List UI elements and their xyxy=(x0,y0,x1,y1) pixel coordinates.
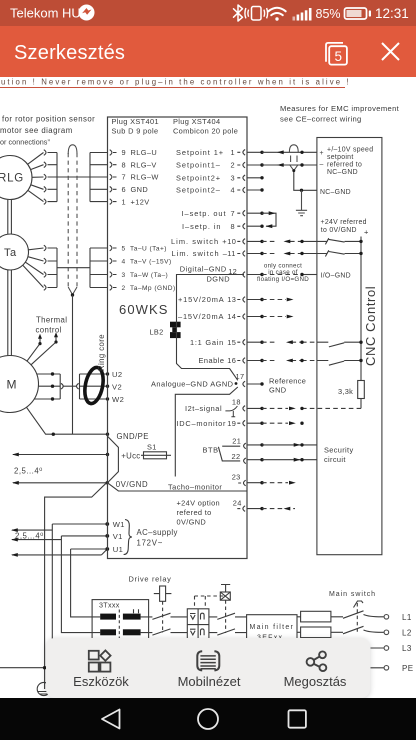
svg-text:IDC–monitor: IDC–monitor xyxy=(177,419,227,428)
svg-text:12:31: 12:31 xyxy=(375,6,409,21)
svg-text:Setpoint1–: Setpoint1– xyxy=(176,161,221,170)
I2t pin squiggle xyxy=(225,406,237,417)
svg-text:setpoint: setpoint xyxy=(327,154,354,161)
svg-text:1: 1 xyxy=(231,148,235,157)
svg-text:Combicon 20 pole: Combicon 20 pole xyxy=(173,127,238,136)
RLG fan wires xyxy=(28,153,44,202)
svg-text:4: 4 xyxy=(122,259,126,266)
svg-text:0V/GND: 0V/GND xyxy=(177,517,207,526)
controller box outline xyxy=(108,117,248,559)
svg-text:13: 13 xyxy=(227,295,236,304)
resistor 3,3k xyxy=(358,381,365,399)
twisted pair shield capsule xyxy=(289,145,298,171)
svg-text:Main switch: Main switch xyxy=(329,591,376,598)
motor wire dots at box edge xyxy=(106,372,109,400)
svg-text:Drive relay: Drive relay xyxy=(129,575,172,584)
AGND banner lower edge and monitor box xyxy=(175,387,238,477)
bottom tool overlay xyxy=(46,638,370,698)
Ta cable through wire xyxy=(57,267,90,269)
gain and enable dashed wires xyxy=(262,342,317,360)
svg-text:CNC Control: CNC Control xyxy=(363,286,378,366)
svg-text:motor see diagram: motor see diagram xyxy=(0,126,73,135)
svg-text:Tacho–monitor: Tacho–monitor xyxy=(168,482,222,491)
EMC note xyxy=(280,104,400,124)
terminal circles L1 L2 L3 PE xyxy=(384,615,389,671)
limit switch wires xyxy=(262,241,317,253)
Ta left comb xyxy=(48,248,58,288)
AC supply brace xyxy=(124,520,132,555)
svg-text:+24V referred: +24V referred xyxy=(321,219,367,226)
I/O-GND wire xyxy=(262,274,302,276)
svg-text:or connections”: or connections” xyxy=(0,138,50,147)
RLG cable through wire xyxy=(48,176,108,178)
svg-text:Plug XST401: Plug XST401 xyxy=(112,117,159,126)
svg-text:U2: U2 xyxy=(112,370,123,379)
svg-text:Lim. switch –: Lim. switch – xyxy=(172,249,228,258)
cable shield screen dashed capsule xyxy=(68,145,77,295)
svg-text:BTB: BTB xyxy=(203,446,219,455)
svg-text:5: 5 xyxy=(334,49,342,64)
svg-text:Measures for EMC improvement: Measures for EMC improvement xyxy=(280,104,400,113)
svg-text:AC–supply: AC–supply xyxy=(137,528,178,537)
PE branch wire left xyxy=(0,667,45,669)
cable break arcs xyxy=(61,383,79,389)
cable mid wire xyxy=(63,374,108,399)
svg-text:4: 4 xyxy=(231,186,235,195)
svg-text:0V/GND: 0V/GND xyxy=(116,480,148,489)
signal ground symbol xyxy=(296,190,307,215)
15V supply dashed arrows xyxy=(262,300,286,317)
svg-text:ution ! Never remove or plug–i: ution ! Never remove or plug–in the cont… xyxy=(1,78,351,87)
shield drain to NC-GND xyxy=(294,170,317,190)
svg-text:Ring core: Ring core xyxy=(97,334,106,371)
left pin labels xyxy=(122,148,159,206)
svg-text:85%: 85% xyxy=(316,7,341,21)
svg-text:7: 7 xyxy=(231,209,235,218)
Ta right comb xyxy=(90,248,108,288)
svg-text:8: 8 xyxy=(122,160,127,169)
svg-text:Ta: Ta xyxy=(4,247,17,259)
line fuses L1 L2 xyxy=(297,611,343,637)
svg-text:Telekom HU: Telekom HU xyxy=(10,6,81,21)
svg-text:5: 5 xyxy=(122,246,126,253)
svg-text:control: control xyxy=(36,325,62,334)
svg-text:Reference: Reference xyxy=(269,377,306,386)
RLG left comb xyxy=(48,153,58,202)
svg-text:17: 17 xyxy=(236,372,245,381)
svg-text:Plug XST404: Plug XST404 xyxy=(173,117,220,126)
svg-text:+12V: +12V xyxy=(131,197,150,206)
left pin symbols xyxy=(110,150,117,291)
svg-text:Main filter: Main filter xyxy=(250,624,295,631)
power stage bottom divider xyxy=(108,483,247,491)
svg-text:23: 23 xyxy=(232,473,241,482)
svg-text:RLG–U: RLG–U xyxy=(131,148,158,157)
svg-text:L2: L2 xyxy=(402,629,412,638)
contactor coil K xyxy=(220,585,230,601)
+24V referred label xyxy=(321,219,367,234)
BTB wires to security circuit xyxy=(262,445,317,460)
tacho monitor dashed wire xyxy=(262,482,288,484)
svg-text:Enable: Enable xyxy=(199,356,225,365)
Ta fan wires xyxy=(23,248,44,288)
svg-text:refered to: refered to xyxy=(177,508,212,517)
AC supply wires into drive xyxy=(52,524,107,645)
svg-text:S1: S1 xyxy=(147,443,157,452)
PE earth circle xyxy=(37,682,50,695)
svg-text:–: – xyxy=(320,162,324,169)
rotor sensor note xyxy=(0,115,95,147)
terminal labels xyxy=(402,613,413,673)
resistor lower lead xyxy=(360,399,362,409)
svg-text:DGND: DGND xyxy=(207,275,231,284)
svg-text:Ta–W (Ta–): Ta–W (Ta–) xyxy=(130,272,168,279)
DGND sub box xyxy=(177,275,245,381)
warning note text xyxy=(1,78,351,87)
svg-text:10: 10 xyxy=(227,237,236,246)
thermal control label xyxy=(36,316,68,335)
svg-text:3: 3 xyxy=(122,272,126,279)
svg-text:12: 12 xyxy=(228,267,237,276)
svg-text:14: 14 xyxy=(227,312,236,321)
mains arrows W1 V1 U1 xyxy=(12,530,107,555)
close X xyxy=(382,43,399,60)
limit switch contacts in CNC xyxy=(317,237,361,381)
right pin C symbols xyxy=(237,150,246,512)
svg-text:+24V option: +24V option xyxy=(177,498,221,507)
svg-text:I/O–GND: I/O–GND xyxy=(321,273,351,280)
svg-text:1:1 Gain: 1:1 Gain xyxy=(190,338,224,347)
motor M circle xyxy=(0,356,39,413)
svg-text:to 0V/GND: to 0V/GND xyxy=(321,227,357,234)
svg-text:3,3k: 3,3k xyxy=(338,387,353,396)
svg-text:3Txxx: 3Txxx xyxy=(99,601,120,610)
vibrate icon xyxy=(252,7,262,21)
svg-text:RLG–V: RLG–V xyxy=(131,160,157,169)
svg-text:Sub D 9 pole: Sub D 9 pole xyxy=(112,127,159,136)
gain and enable contacts in CNC xyxy=(317,342,361,365)
ring core ferrite xyxy=(82,366,106,405)
svg-text:W2: W2 xyxy=(112,395,124,404)
svg-text:RLG–W: RLG–W xyxy=(131,173,159,182)
right pin labels xyxy=(176,148,224,195)
wires pins to junction dots xyxy=(247,152,262,508)
svg-text:Ta–Mp (GND): Ta–Mp (GND) xyxy=(130,285,176,292)
svg-text:NC–GND: NC–GND xyxy=(320,189,351,196)
svg-text:LB2: LB2 xyxy=(150,328,164,337)
RLG right comb xyxy=(90,153,108,202)
I2t signal dashed wire xyxy=(262,407,361,409)
svg-text:V1: V1 xyxy=(113,532,123,541)
svg-text:8: 8 xyxy=(231,222,235,231)
svg-text:6: 6 xyxy=(122,185,127,194)
svg-text:7: 7 xyxy=(122,173,127,182)
tools icon xyxy=(89,651,99,660)
battery icon xyxy=(345,8,367,19)
tacho Ta circle xyxy=(0,234,29,270)
svg-text:Thermal: Thermal xyxy=(36,316,67,325)
svg-text:+/–10V speed: +/–10V speed xyxy=(327,147,373,154)
svg-text:18: 18 xyxy=(232,398,241,407)
svg-text:I–setp. in: I–setp. in xyxy=(182,222,222,231)
app toolbar xyxy=(0,26,416,77)
Ta connector arcs xyxy=(44,245,46,290)
svg-text:referred to: referred to xyxy=(327,162,362,169)
svg-text:172V~: 172V~ xyxy=(137,539,164,548)
copy/pages icon with 5 xyxy=(326,43,343,62)
bluetooth icon xyxy=(234,5,243,21)
svg-text:circuit: circuit xyxy=(324,455,346,464)
svg-text:W1: W1 xyxy=(113,520,125,529)
svg-text:2,5...4⁰: 2,5...4⁰ xyxy=(15,532,44,541)
svg-text:60WKS: 60WKS xyxy=(119,302,169,317)
transformer 3Txxx box xyxy=(92,600,149,645)
junction dots at x262 xyxy=(260,151,263,511)
svg-text:L3: L3 xyxy=(402,644,412,653)
svg-text:Setpoint2–: Setpoint2– xyxy=(176,186,221,195)
svg-text:24: 24 xyxy=(233,498,242,507)
svg-text:RLG: RLG xyxy=(0,173,24,185)
svg-text:+: + xyxy=(320,150,324,157)
main filter box xyxy=(247,615,297,649)
overvoltage fuse module xyxy=(187,609,209,641)
svg-text:in case of: in case of xyxy=(268,269,297,276)
svg-text:19: 19 xyxy=(227,419,236,428)
svg-text:PE: PE xyxy=(402,664,413,673)
floating note xyxy=(257,263,309,284)
navigation bar xyxy=(0,698,416,740)
motor phase wires U2 V2 W2 xyxy=(34,374,60,399)
svg-text:22: 22 xyxy=(232,452,241,461)
svg-text:+: + xyxy=(364,228,369,237)
transformer windings row 2 xyxy=(100,629,140,635)
svg-text:9: 9 xyxy=(122,148,127,157)
svg-text:GND/PE: GND/PE xyxy=(117,432,149,441)
messenger icon xyxy=(79,5,95,21)
BTB pin link xyxy=(218,446,240,461)
svg-text:GND: GND xyxy=(269,386,286,395)
transformer core dashes xyxy=(118,610,120,641)
motor terminal labels U2 V2 W2 xyxy=(112,370,124,404)
wires to main filter xyxy=(209,613,247,635)
plug header labels xyxy=(112,117,239,136)
svg-text:1: 1 xyxy=(122,197,127,206)
wifi icon xyxy=(268,8,285,15)
svg-text:Ta–U (Ta+): Ta–U (Ta+) xyxy=(130,246,167,253)
svg-text:–15V/20mA: –15V/20mA xyxy=(178,312,224,321)
mobile view icon xyxy=(197,651,219,670)
+Ucc external wire arrow xyxy=(13,454,108,456)
resolver RLG circle xyxy=(0,156,32,200)
cable pair Ta to M xyxy=(8,270,12,356)
share icon xyxy=(307,658,315,666)
shield drain wire to GND/PE xyxy=(71,293,74,296)
svg-text:floating I/O=GND: floating I/O=GND xyxy=(257,276,309,283)
svg-text:for rotor position sensor: for rotor position sensor xyxy=(2,115,95,124)
svg-text:2: 2 xyxy=(231,161,235,170)
power stage notch outline xyxy=(108,436,119,483)
svg-text:GND: GND xyxy=(131,185,149,194)
drive relay coil xyxy=(154,586,172,601)
svg-text:NC–GND: NC–GND xyxy=(327,169,358,176)
transformer tap ticks xyxy=(134,609,139,613)
mains wires row 1 xyxy=(141,613,188,635)
main switch contacts xyxy=(343,611,384,668)
cable pair RLG to Ta xyxy=(8,200,12,235)
svg-text:Setpoint2+: Setpoint2+ xyxy=(176,174,221,183)
svg-text:16: 16 xyxy=(227,356,236,365)
GND/PE wire from motor xyxy=(27,407,108,434)
svg-text:3: 3 xyxy=(231,174,235,183)
24V option dashed wire xyxy=(262,508,295,510)
svg-text:U1: U1 xyxy=(113,545,123,554)
I-setp loopback 7 to 8 xyxy=(262,213,276,226)
reference GND label xyxy=(269,377,306,395)
IDC monitor dashed wire xyxy=(262,422,288,424)
transformer windings row 1 xyxy=(100,614,140,620)
CNC box outline xyxy=(317,138,382,555)
0V/GND wire down to PE xyxy=(45,483,107,689)
svg-text:Lim. switch +: Lim. switch + xyxy=(171,237,228,246)
AC supply label xyxy=(137,528,178,548)
setpoint wires with arrows to CNC xyxy=(262,152,317,165)
svg-text:V2: V2 xyxy=(112,383,122,392)
svg-text:Setpoint 1+: Setpoint 1+ xyxy=(176,148,224,157)
svg-text:15: 15 xyxy=(227,338,236,347)
svg-text:Digital–GND: Digital–GND xyxy=(180,265,227,274)
svg-text:2,5...4⁰: 2,5...4⁰ xyxy=(14,467,43,476)
contactor dashed links xyxy=(195,596,226,633)
RLG connector arcs xyxy=(44,150,46,205)
svg-text:2: 2 xyxy=(122,285,126,292)
svg-text:+Ucc: +Ucc xyxy=(121,452,140,461)
svg-text:I2t–signal: I2t–signal xyxy=(185,404,222,413)
svg-text:+15V/20mA: +15V/20mA xyxy=(178,295,224,304)
svg-text:21: 21 xyxy=(232,437,241,446)
thermal control wires and arrows xyxy=(27,336,56,365)
svg-text:Ta–V (–15V): Ta–V (–15V) xyxy=(130,259,172,266)
pin 24 C dash xyxy=(237,508,240,510)
svg-text:I–setp. out: I–setp. out xyxy=(182,209,227,218)
signal bars xyxy=(293,17,296,21)
0V/GND external wire arrow xyxy=(13,482,107,484)
security circuit label xyxy=(324,445,354,464)
svg-text:11: 11 xyxy=(227,249,235,258)
main switch linkage xyxy=(356,603,358,634)
status bar xyxy=(0,0,416,26)
svg-text:Security: Security xyxy=(324,445,354,454)
drive relay actuating dashed link xyxy=(162,601,164,633)
W1 V1 U1 labels xyxy=(113,520,125,554)
svg-text:Analogue–GND AGND: Analogue–GND AGND xyxy=(151,380,233,389)
warning underline xyxy=(0,87,345,89)
svg-text:M: M xyxy=(7,378,17,392)
svg-text:see CE–correct wiring: see CE–correct wiring xyxy=(280,115,362,124)
svg-text:L1: L1 xyxy=(402,613,412,622)
speed setpoint labels xyxy=(320,147,374,197)
